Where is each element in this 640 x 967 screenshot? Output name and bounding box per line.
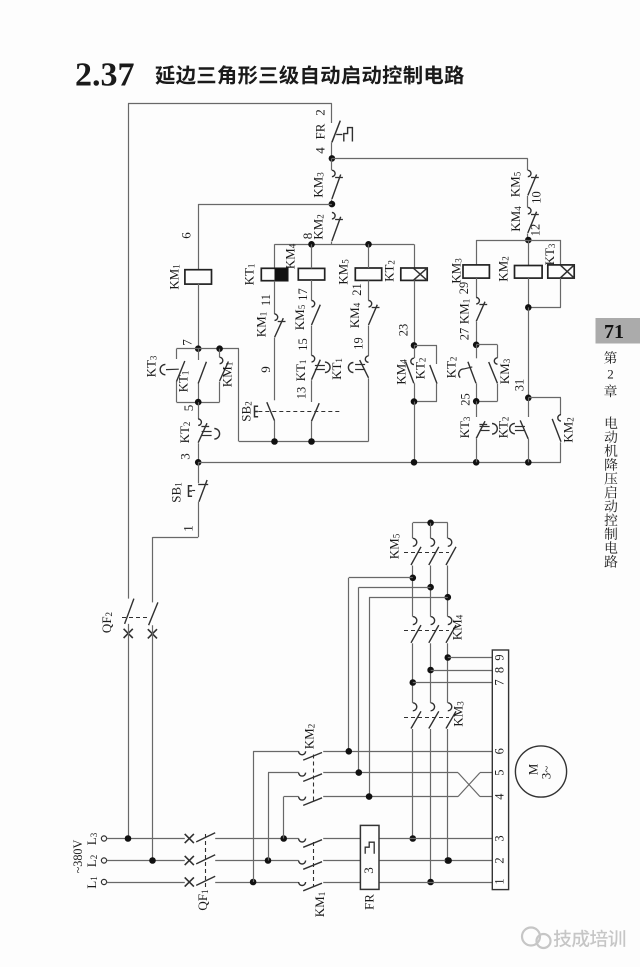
- contactor KM3 poles: [404, 703, 456, 729]
- contact KT1 timed mirrored: [348, 356, 368, 442]
- coil KM2: [515, 240, 543, 307]
- wire km5-km4 segs: [410, 566, 452, 617]
- svg-text:10: 10: [529, 191, 543, 203]
- svg-text:8: 8: [492, 667, 506, 673]
- svg-text:23: 23: [396, 324, 410, 336]
- label KM4 coil: [282, 243, 297, 269]
- label 8: [300, 233, 315, 240]
- wire jog to QF2: [153, 537, 199, 602]
- terminal 7: [492, 679, 506, 685]
- coil KM4: [298, 244, 324, 300]
- wire top horizontal node2: [128, 103, 332, 123]
- pushbutton SB2 actuator: [255, 406, 342, 416]
- contact KM2 NO: [528, 398, 561, 463]
- line 4 with crossover: [284, 773, 493, 806]
- label 11: [259, 294, 273, 306]
- watermark logo and text: [522, 928, 625, 949]
- contact KM5 aux (10): [528, 170, 539, 207]
- terminal wires 789: [413, 658, 493, 683]
- label KT1 coil: [241, 264, 256, 286]
- contact KM4 aux (12): [528, 208, 539, 241]
- left riser line4: [283, 797, 285, 839]
- node 4: [329, 155, 336, 162]
- label KM3 coil: [448, 258, 463, 284]
- supply label: [71, 839, 85, 873]
- svg-text:8: 8: [300, 233, 315, 240]
- bus wire 8: [275, 241, 415, 248]
- label 15: [296, 338, 310, 350]
- wire node4 right down: [527, 158, 529, 170]
- left riser line5: [268, 773, 270, 861]
- branch KT3 timed: [160, 349, 185, 402]
- contact KM2 aux: [332, 213, 343, 245]
- label 29: [457, 282, 471, 294]
- pushbutton SB1 NC: [189, 462, 209, 537]
- node 12: [525, 237, 532, 244]
- label KM3 main: [450, 701, 465, 727]
- contact KM4 parallel-left: [406, 345, 415, 401]
- label KM1 contact: [253, 312, 268, 337]
- node label 2: [312, 109, 327, 116]
- label KT2 coil: [381, 260, 396, 282]
- label 9: [258, 366, 273, 373]
- label KT1 contact col3: [329, 358, 344, 380]
- svg-text:6: 6: [492, 748, 506, 754]
- contact KT2 timed delay-close: [459, 345, 477, 402]
- terminal 4: [492, 793, 506, 799]
- svg-text:9: 9: [258, 366, 273, 373]
- parallel group bottom bar: [177, 399, 220, 406]
- wire KM2col down: [528, 307, 530, 397]
- svg-text:3: 3: [177, 453, 192, 460]
- label 23: [396, 324, 410, 336]
- contact KT3 NC timed: [476, 401, 497, 462]
- terminal 1: [492, 878, 506, 884]
- motor M: [515, 746, 566, 797]
- contact KM1 NC (11-9): [275, 314, 286, 400]
- line 5 with crossover: [268, 769, 492, 796]
- svg-text:3: 3: [492, 835, 506, 841]
- svg-text:1: 1: [180, 525, 195, 532]
- label KM1 nc right: [456, 299, 471, 324]
- contact KM3 aux: [332, 158, 343, 204]
- coil KT2: [401, 244, 427, 345]
- contact KM1 NC (29-27): [476, 298, 487, 345]
- svg-text:1: 1: [492, 878, 506, 884]
- svg-text:13: 13: [294, 387, 308, 399]
- label KM4 par: [393, 359, 408, 385]
- L1 terminal: [84, 876, 107, 888]
- label KT3 coil: [542, 243, 557, 265]
- breaker QF2 pole a: [124, 103, 134, 838]
- power line 2: [107, 855, 493, 870]
- label KM3 par: [497, 358, 512, 384]
- label 6: [178, 232, 193, 239]
- branch KM1 NO: [220, 349, 229, 402]
- svg-text:3~: 3~: [538, 766, 553, 780]
- svg-text:~380V: ~380V: [71, 839, 85, 873]
- contact KM5 (17-15): [312, 301, 321, 356]
- page title Chinese: [155, 65, 464, 84]
- contact KM3 parallel: [476, 345, 497, 402]
- svg-text:12: 12: [528, 224, 542, 236]
- label KT2 par: [412, 358, 427, 380]
- svg-text:25: 25: [458, 393, 472, 405]
- svg-text:FR: FR: [361, 894, 376, 910]
- svg-text:FR: FR: [312, 123, 327, 139]
- svg-text:2: 2: [492, 857, 506, 863]
- label KM1 coil: [166, 264, 181, 289]
- label KM2: [310, 214, 325, 239]
- contact KT2 NC timed: [198, 402, 219, 462]
- label KM1 branch: [219, 362, 234, 387]
- wire km3 to lines: [410, 729, 452, 885]
- left riser line6: [253, 751, 255, 882]
- label SB2: [238, 401, 253, 421]
- page number 71 box: [596, 318, 640, 344]
- terminal 8: [492, 667, 506, 673]
- label SB1: [168, 482, 183, 502]
- label KM4 main: [449, 614, 464, 640]
- label KM5 main: [386, 533, 401, 559]
- node 7: [179, 339, 201, 352]
- contact KT2 timed bottom: [510, 398, 529, 463]
- label 1: [180, 525, 195, 532]
- KM1 linkage: [312, 842, 327, 917]
- wire node4 to right branch: [332, 158, 528, 160]
- label KT3 branch: [143, 355, 158, 377]
- L2 terminal: [84, 855, 107, 867]
- FR heater box: [360, 825, 379, 910]
- node 27: [473, 342, 480, 349]
- label FR and 4: [312, 123, 327, 154]
- coil KM5: [355, 244, 381, 300]
- branch KT1 NO: [198, 349, 206, 402]
- label KM3: [310, 172, 325, 198]
- label KM5 coil: [335, 259, 350, 285]
- svg-text:29: 29: [457, 282, 471, 294]
- label 17: [296, 288, 310, 300]
- svg-text:4: 4: [492, 793, 506, 799]
- svg-text:5: 5: [492, 769, 506, 775]
- svg-text:6: 6: [178, 232, 193, 239]
- line 6: [253, 748, 492, 760]
- label KT1 contact col2: [293, 360, 308, 382]
- label 13: [294, 387, 308, 399]
- svg-text:15: 15: [296, 338, 310, 350]
- svg-text:19: 19: [351, 337, 365, 349]
- label KM4 aux: [508, 206, 542, 236]
- contact SB2 pole a: [267, 402, 275, 441]
- power line 1: [107, 876, 493, 891]
- label KM2 contact: [560, 417, 575, 442]
- power line 3: [107, 833, 493, 848]
- node 3: [177, 453, 201, 465]
- label KT2 contact left: [177, 422, 192, 444]
- parallel group top bar: [177, 345, 223, 352]
- terminal 2: [492, 857, 506, 863]
- breaker QF2 pole b: [148, 602, 158, 860]
- terminal 6: [492, 748, 506, 754]
- contactor KM4 poles: [404, 617, 456, 643]
- label KT2 bottom: [495, 417, 510, 439]
- svg-text:5: 5: [181, 405, 196, 412]
- QF1 linkage: [195, 834, 210, 911]
- label KT3 nc: [457, 416, 472, 438]
- svg-text:71: 71: [604, 321, 624, 343]
- svg-text:2: 2: [312, 109, 327, 116]
- node below KM2 coil: [525, 304, 532, 311]
- contact KT2 parallel-right: [414, 345, 437, 401]
- contactor KM5 poles: [404, 538, 456, 565]
- KM2 linkage: [301, 724, 316, 801]
- contact KT1 timed (15-13): [312, 356, 331, 403]
- label KM4 contact: [347, 302, 362, 328]
- coil KM3: [463, 240, 489, 298]
- svg-text:7: 7: [492, 679, 506, 685]
- title number 2.37: [75, 57, 135, 94]
- rail 462: [198, 459, 561, 466]
- svg-text:17: 17: [296, 288, 310, 300]
- svg-text:31: 31: [512, 379, 526, 391]
- svg-text:7: 7: [179, 339, 194, 346]
- terminal 9: [492, 654, 506, 660]
- rail 12: [476, 240, 561, 242]
- contact SB2 pole b: [312, 403, 320, 441]
- label KM5 contact: [292, 304, 307, 330]
- label 5: [181, 405, 196, 412]
- star bar KM5: [413, 520, 448, 539]
- QF2 linkage: [99, 612, 148, 633]
- node 25: [458, 393, 479, 405]
- svg-text:11: 11: [259, 294, 273, 306]
- label 21: [350, 283, 364, 295]
- feeder turn wires: [349, 578, 448, 797]
- svg-text:4: 4: [312, 147, 327, 154]
- label KT2 delay: [443, 357, 458, 379]
- wire SB2 bottom bus: [220, 349, 369, 445]
- L3 terminal: [84, 832, 107, 845]
- wire to KM1 coil branch: [198, 204, 332, 270]
- wire km4-km3 segs: [410, 643, 452, 703]
- coil KM1: [185, 270, 212, 349]
- svg-text:21: 21: [350, 283, 364, 295]
- label 19: [351, 337, 365, 349]
- coil KT1: [261, 244, 287, 314]
- contact KM4 (21-19): [369, 301, 380, 356]
- node 23a: [411, 342, 418, 349]
- svg-text:9: 9: [492, 654, 506, 660]
- label KT1 branch: [175, 371, 190, 393]
- node 31: [512, 379, 531, 401]
- node 6-junction: [329, 201, 336, 208]
- wire KT2col to rail: [414, 402, 416, 463]
- terminal strip: [492, 650, 508, 890]
- svg-text:27: 27: [457, 328, 471, 340]
- side margin chapter text: [604, 351, 617, 568]
- terminal 3: [492, 835, 506, 841]
- svg-text:3: 3: [361, 867, 376, 874]
- label 27: [457, 328, 471, 340]
- label KM5 aux: [507, 171, 543, 203]
- node 23b: [411, 398, 418, 405]
- terminal 5: [492, 769, 506, 775]
- svg-text:2.37: 2.37: [75, 57, 135, 94]
- label KM2 coil: [495, 256, 510, 281]
- thermal relay contact FR: [332, 121, 353, 159]
- svg-text:2: 2: [607, 367, 614, 382]
- coil KT3: [528, 240, 574, 308]
